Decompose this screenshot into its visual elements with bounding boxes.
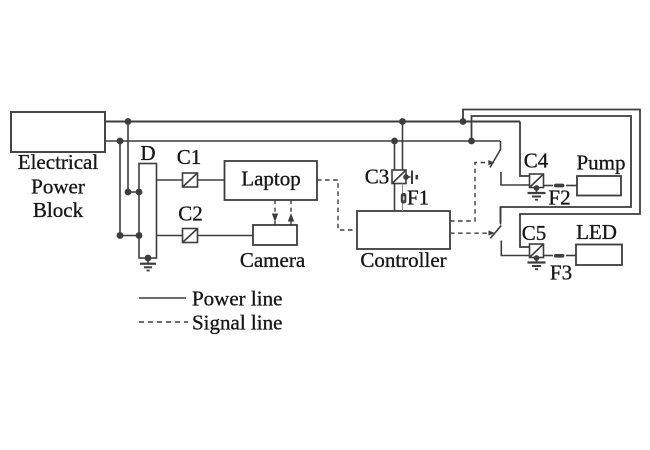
svg-text:Power line: Power line xyxy=(192,287,282,311)
arrowhead down into camera xyxy=(272,214,278,223)
legend signal line sample xyxy=(139,321,188,323)
signal line controller to pump relay xyxy=(450,163,487,222)
svg-text:D: D xyxy=(140,141,155,165)
arrowhead at LED relay xyxy=(489,230,495,235)
arrowhead at pump relay xyxy=(488,160,494,165)
probe symbol right of C3 xyxy=(406,171,412,185)
wire F3 to LED xyxy=(566,255,576,257)
svg-text:C4: C4 xyxy=(524,149,549,173)
wire inner loop to LED relay contact xyxy=(472,116,632,223)
converter C1 xyxy=(183,173,198,187)
wire outer loop to C5 feed xyxy=(463,110,640,248)
node on D left edge upper xyxy=(136,189,143,196)
label C5 xyxy=(522,221,547,245)
signal line laptop to camera (down arrow) xyxy=(274,200,276,225)
svg-text:F1: F1 xyxy=(407,186,429,210)
converter C4 xyxy=(530,174,544,188)
probe tip mark xyxy=(416,175,419,179)
svg-text:C5: C5 xyxy=(522,221,547,245)
svg-text:F3: F3 xyxy=(550,261,572,285)
wire C4 to F2 xyxy=(544,185,554,187)
wire pump relay contact xyxy=(500,141,502,150)
node on top rail feeding D xyxy=(125,118,132,125)
ground under C5 xyxy=(528,258,546,269)
label C4 xyxy=(524,149,549,173)
svg-text:Pump: Pump xyxy=(576,151,625,175)
node on D left edge lower xyxy=(136,232,143,239)
arrowhead up toward laptop xyxy=(288,213,294,222)
wire C4 feed from top rail xyxy=(520,122,530,177)
converter C5 xyxy=(530,244,544,258)
node on second rail feeding D xyxy=(117,138,124,145)
label Laptop xyxy=(241,167,300,191)
LED box xyxy=(576,245,622,266)
wire drop from top rail to D upper input xyxy=(128,122,139,193)
wire C3 second leg to controller xyxy=(402,184,404,212)
electrical power block box xyxy=(11,112,105,152)
wire LED relay contact xyxy=(500,207,502,225)
wire C1 to Laptop xyxy=(198,179,225,181)
signal line controller to LED relay xyxy=(450,232,487,234)
wire top power rail xyxy=(105,121,520,123)
legend label Power line xyxy=(192,287,282,311)
node on C3 right edge xyxy=(403,174,409,180)
wire pump relay output to C4 xyxy=(501,172,530,185)
LED relay blade xyxy=(490,226,501,239)
label Controller xyxy=(360,248,446,272)
camera box xyxy=(253,225,297,245)
wire LED relay output to C5 xyxy=(501,241,529,256)
legend label Signal line xyxy=(192,311,282,335)
fuse F3 xyxy=(554,254,564,258)
label F2 xyxy=(548,186,570,210)
label C1 xyxy=(177,145,202,169)
node at D bottom xyxy=(145,255,152,262)
fuse F1 xyxy=(401,193,407,204)
wire drop from second rail to D lower input xyxy=(120,141,139,236)
signal line laptop to controller xyxy=(317,180,357,230)
svg-text:F2: F2 xyxy=(548,186,570,210)
wire top rail to C3 top xyxy=(402,122,404,171)
legend power line sample xyxy=(139,297,186,299)
svg-text:Signal line: Signal line xyxy=(192,311,282,335)
svg-text:C3: C3 xyxy=(365,165,390,189)
wire C5 to F3 xyxy=(544,255,554,257)
label C2 xyxy=(178,202,203,226)
ground under C4 xyxy=(528,188,546,200)
node on second rail feeding C3 xyxy=(391,138,398,145)
wire second power rail xyxy=(105,140,500,142)
label D xyxy=(140,141,155,165)
svg-text:Camera: Camera xyxy=(240,248,306,272)
node at lower drop bottom xyxy=(117,232,124,239)
ground under D xyxy=(140,258,156,271)
label C3 xyxy=(365,165,390,189)
distribution block D xyxy=(139,164,157,259)
label Electrical Power Block xyxy=(18,150,99,222)
node at C5 bottom xyxy=(534,255,540,261)
wire D to C1 xyxy=(157,179,183,181)
svg-text:Block: Block xyxy=(33,198,84,222)
node on top rail to outer loop xyxy=(460,118,467,125)
signal line camera to laptop (up arrow) xyxy=(290,200,292,225)
svg-text:LED: LED xyxy=(576,220,617,244)
node on top rail feeding C3 xyxy=(399,118,406,125)
fuse F2 xyxy=(554,184,564,188)
wire second rail to C3 top xyxy=(394,141,396,170)
node at drop bottom xyxy=(125,189,132,196)
converter C3 xyxy=(392,170,406,184)
svg-text:Power: Power xyxy=(31,175,85,199)
pump relay blade xyxy=(490,149,501,168)
svg-text:Controller: Controller xyxy=(360,248,446,272)
converter C2 xyxy=(183,229,198,243)
svg-text:C1: C1 xyxy=(177,145,202,169)
pump box xyxy=(577,176,621,196)
wire C2 to Camera xyxy=(198,235,254,237)
node on second rail to inner loop xyxy=(468,138,475,145)
wire C3 bottom to controller xyxy=(394,184,396,212)
label Pump xyxy=(576,151,625,175)
label LED xyxy=(576,220,617,244)
node at C4 bottom xyxy=(534,185,540,191)
label F1 xyxy=(407,186,429,210)
laptop box xyxy=(225,161,318,200)
controller box xyxy=(357,211,450,249)
svg-text:Electrical: Electrical xyxy=(18,150,99,174)
label Camera xyxy=(240,248,306,272)
wire F2 to pump xyxy=(566,185,577,187)
svg-text:C2: C2 xyxy=(178,202,203,226)
wire D to C2 xyxy=(157,235,183,237)
svg-text:Laptop: Laptop xyxy=(241,167,300,191)
label F3 xyxy=(550,261,572,285)
